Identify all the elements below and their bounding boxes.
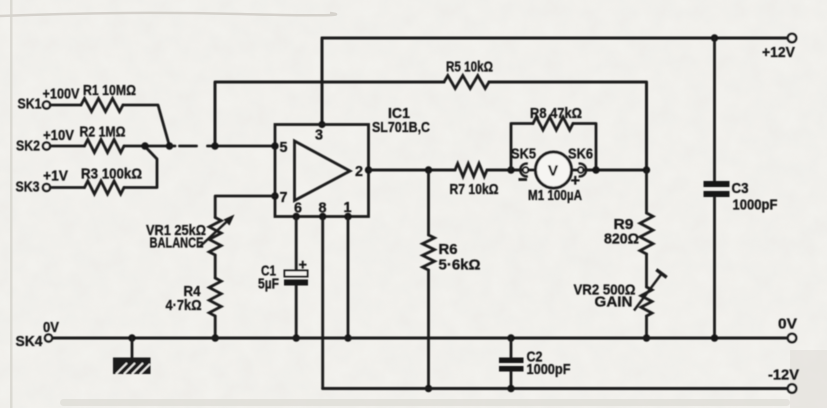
resistor R1	[50, 82, 136, 112]
node R6 bottom	[425, 385, 432, 392]
svg-text:5: 5	[280, 139, 288, 156]
svg-text:R8 47kΩ: R8 47kΩ	[530, 105, 582, 122]
node R6 top	[425, 166, 432, 173]
svg-text:GAIN: GAIN	[595, 294, 633, 311]
svg-text:+: +	[299, 258, 307, 274]
resistor R8 bracket	[511, 105, 596, 170]
svg-text:8: 8	[319, 200, 327, 217]
node pin5 feed	[211, 142, 218, 149]
svg-text:6: 6	[294, 200, 302, 217]
wire 0V rail	[52, 337, 791, 340]
resistor R5	[444, 59, 493, 89]
capacitor C2	[499, 334, 571, 392]
svg-text:R2 1MΩ: R2 1MΩ	[80, 124, 126, 141]
wire -12V rail	[323, 387, 791, 390]
svg-text:R6: R6	[439, 241, 458, 258]
node SK6 junction	[592, 166, 599, 173]
op-amp IC1	[275, 125, 369, 217]
svg-text:7: 7	[280, 189, 288, 206]
node C1 bottom	[293, 334, 300, 341]
svg-text:5µF: 5µF	[258, 276, 279, 293]
node SK5 junction	[507, 166, 514, 173]
wire VR2 to 0V	[645, 316, 648, 338]
wire R6 column	[427, 170, 430, 235]
pin 2	[355, 163, 372, 180]
svg-text:4·7kΩ: 4·7kΩ	[166, 297, 202, 314]
wire pin3 vertical	[321, 38, 324, 124]
svg-text:SK4: SK4	[16, 333, 44, 350]
svg-text:0V: 0V	[43, 320, 59, 336]
pin 8	[319, 200, 327, 221]
svg-text:-12V: -12V	[768, 367, 799, 384]
meter M1	[528, 152, 582, 204]
wire pin6 down	[295, 217, 298, 271]
svg-text:SK2: SK2	[16, 138, 40, 155]
svg-text:R5 10kΩ: R5 10kΩ	[446, 59, 493, 76]
svg-text:SK1: SK1	[18, 96, 42, 113]
svg-text:SK3: SK3	[16, 179, 40, 196]
node output column	[643, 166, 650, 173]
resistor R6	[423, 235, 481, 274]
capacitor C3	[704, 34, 778, 341]
svg-text:R3 100kΩ: R3 100kΩ	[81, 166, 142, 183]
svg-text:+: +	[571, 172, 581, 190]
socket SK5	[511, 146, 536, 180]
svg-text:BALANCE: BALANCE	[150, 235, 204, 252]
terminal -12V	[768, 367, 799, 393]
terminal SK4	[16, 320, 60, 350]
wire pin1 to 0V	[347, 217, 350, 339]
svg-text:+12V: +12V	[762, 44, 795, 61]
terminal SK2	[16, 128, 74, 155]
resistor R3	[50, 166, 142, 195]
svg-text:+10V: +10V	[43, 128, 74, 144]
pin 6	[293, 200, 303, 221]
wire +12V top rail	[322, 37, 791, 40]
svg-text:R7 10kΩ: R7 10kΩ	[450, 181, 499, 198]
wire pin7 to VR1	[215, 196, 275, 218]
node ground junction	[128, 334, 135, 341]
node R4 bottom	[212, 334, 219, 341]
resistor R2	[50, 124, 125, 153]
wire pin2 output	[369, 169, 456, 172]
wire dashed switch link	[171, 145, 275, 148]
terminal +12V	[762, 34, 796, 61]
pin 5	[271, 139, 287, 156]
capacitor C1	[258, 258, 308, 293]
svg-text:R1 10MΩ: R1 10MΩ	[83, 82, 136, 99]
socket SK6	[568, 146, 593, 191]
svg-text:SK5: SK5	[511, 146, 536, 163]
svg-text:SK6: SK6	[568, 146, 593, 163]
terminal SK3	[16, 169, 69, 196]
svg-text:3: 3	[315, 127, 323, 144]
svg-text:C3: C3	[732, 180, 749, 197]
wire pin8 to -12V	[321, 217, 324, 389]
wire R1 to switch	[123, 105, 170, 146]
potentiometer VR2	[574, 270, 667, 316]
terminal 0V right	[778, 316, 797, 343]
resistor R7	[450, 164, 499, 199]
svg-text:1000pF: 1000pF	[733, 197, 778, 214]
wire R2 to node	[124, 145, 170, 148]
node switch B	[166, 142, 173, 149]
wire R3 up to node	[124, 147, 157, 188]
svg-text:1: 1	[344, 199, 352, 216]
svg-text:0V: 0V	[778, 316, 797, 333]
resistor R9	[604, 213, 653, 254]
svg-text:+100V: +100V	[43, 87, 80, 103]
wire R6 to -12V	[427, 270, 430, 389]
wire R4 to 0V	[214, 316, 217, 338]
pin 7	[271, 189, 287, 206]
wire R9 top lead	[645, 170, 648, 213]
svg-text:1000pF: 1000pF	[527, 361, 571, 378]
node pin1 bottom	[344, 334, 351, 341]
wire VR1 to R4	[214, 255, 217, 278]
potentiometer VR1	[146, 215, 235, 256]
pin 1	[344, 199, 352, 220]
svg-text:SL701B,C: SL701B,C	[372, 119, 430, 136]
svg-text:2: 2	[355, 163, 363, 180]
svg-text:+1V: +1V	[43, 169, 68, 185]
resistor R4	[166, 278, 222, 316]
wire R5 to output column	[489, 82, 647, 170]
svg-text:820Ω: 820Ω	[604, 231, 639, 248]
svg-text:5·6kΩ: 5·6kΩ	[439, 257, 481, 274]
ground	[113, 338, 151, 374]
svg-text:V: V	[548, 163, 558, 180]
wire R7 to SK5	[487, 169, 523, 172]
wire R5 feedback run	[215, 82, 444, 146]
wire R9 to VR2	[645, 254, 648, 287]
node pin3 junction	[318, 121, 325, 128]
op-amp IC1 labels	[372, 105, 430, 136]
node VR2 bottom	[643, 334, 650, 341]
wire SK6 to node	[584, 169, 647, 172]
node input A	[141, 142, 148, 149]
wire C1 to 0V	[295, 286, 298, 339]
terminal SK1	[18, 87, 80, 113]
